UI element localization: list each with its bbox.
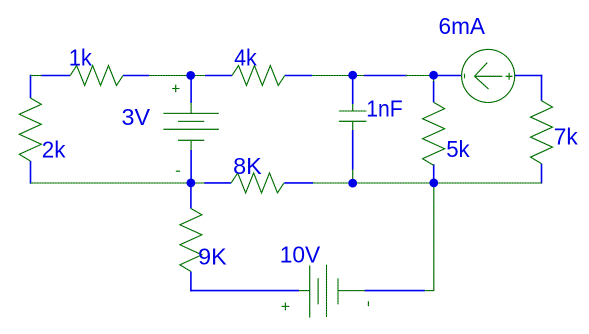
wire R2 to node B: [285, 75, 313, 77]
battery V1 plate 2 short: [178, 120, 204, 122]
svg-text:5k: 5k: [446, 136, 470, 162]
wire R6 to node E: [284, 182, 313, 184]
battery V1 plate 3 long: [163, 128, 218, 130]
bottom rail node E to right: [313, 182, 542, 184]
battery V2 plate 4 short: [337, 278, 339, 304]
wire R7 to bottom corner: [190, 272, 192, 292]
svg-text:6mA: 6mA: [439, 13, 486, 39]
V2 left lead: [299, 290, 310, 292]
svg-text:8K: 8K: [233, 153, 262, 179]
svg-text:4k: 4k: [234, 45, 257, 71]
wire node A to R2: [205, 75, 232, 77]
bottom rail left of node D: [31, 182, 205, 184]
battery V2 plus mark: [282, 303, 290, 311]
wire node D to R6: [204, 182, 231, 184]
node B junction: [348, 71, 357, 80]
wire top-left to R1: [41, 75, 70, 77]
node A horizontal stub: [149, 75, 205, 77]
current source I1 arrow shaft: [475, 75, 503, 77]
resistor R6 8K: [231, 173, 284, 193]
wire top-left corner stub: [31, 75, 42, 77]
battery V2 minus mark: [367, 301, 369, 306]
node E upper stub: [352, 170, 354, 184]
wire bottom to V2: [190, 290, 299, 292]
wire node B to C1: [352, 75, 354, 104]
capacitor C1 bottom plate: [339, 120, 367, 122]
V2 right lead: [338, 290, 365, 292]
wire node C to I1: [434, 75, 462, 77]
capacitor C1 bottom lead: [352, 121, 354, 130]
wire node D to R7: [190, 183, 192, 209]
wire node B to node C: [364, 75, 407, 77]
node A junction: [186, 71, 195, 80]
node C junction: [429, 71, 438, 80]
resistor R1 1k: [70, 66, 123, 86]
node C west stub: [406, 75, 434, 77]
wire R5 to node F: [433, 164, 435, 183]
resistor R4 7k: [531, 101, 553, 164]
svg-text:2k: 2k: [42, 137, 66, 163]
wire right rail lower: [541, 164, 543, 184]
svg-text:1k: 1k: [69, 44, 93, 70]
current source I1 minus mark: [464, 74, 466, 79]
battery V2 plate 2 short: [317, 278, 319, 304]
wire R1 to node A: [123, 75, 150, 77]
wire right rail upper: [541, 75, 543, 101]
current source I1 circle: [462, 49, 515, 102]
node F junction: [429, 179, 438, 188]
wire node C to R5: [433, 81, 435, 102]
capacitor C1 top lead: [352, 104, 354, 111]
node E junction: [348, 179, 357, 188]
battery V1 plate 1 long: [163, 112, 218, 114]
battery V1 bottom lead: [190, 140, 192, 150]
current source I1 plus mark: [506, 73, 513, 80]
node C lower stub: [433, 75, 435, 81]
wire V2 to bottom-right: [365, 290, 426, 292]
wire corner to V2 right: [425, 290, 434, 292]
current source I1 arrow head: [475, 63, 489, 89]
wire I1 to top-right corner: [515, 75, 543, 77]
svg-text:10V: 10V: [280, 241, 321, 267]
resistor R3 2k: [19, 98, 41, 161]
wire left rail upper: [30, 75, 32, 98]
battery V2 plate 1 long: [309, 266, 311, 318]
svg-text:7k: 7k: [554, 123, 578, 149]
svg-text:9K: 9K: [198, 244, 227, 270]
resistor R7 9K: [180, 208, 202, 271]
battery V2 plate 3 long: [326, 265, 328, 318]
wire node F down: [433, 183, 435, 291]
wire C1 to node E: [352, 130, 354, 170]
node D junction: [187, 179, 196, 188]
battery V1 minus mark: [176, 170, 180, 172]
node B horizontal stub: [312, 75, 364, 77]
resistor R2 4k: [232, 66, 285, 86]
battery V1 top lead: [190, 103, 192, 114]
battery V1 plus mark: [172, 85, 179, 92]
resistor R5 5k: [423, 102, 445, 165]
capacitor C1 top plate: [339, 110, 367, 112]
wire V1 to node D: [190, 150, 192, 183]
wire left rail lower: [30, 161, 32, 184]
battery V1 plate 4 short: [178, 139, 204, 141]
svg-text:3V: 3V: [122, 104, 151, 130]
svg-text:1nF: 1nF: [366, 96, 403, 122]
wire node A to V1: [190, 76, 192, 104]
